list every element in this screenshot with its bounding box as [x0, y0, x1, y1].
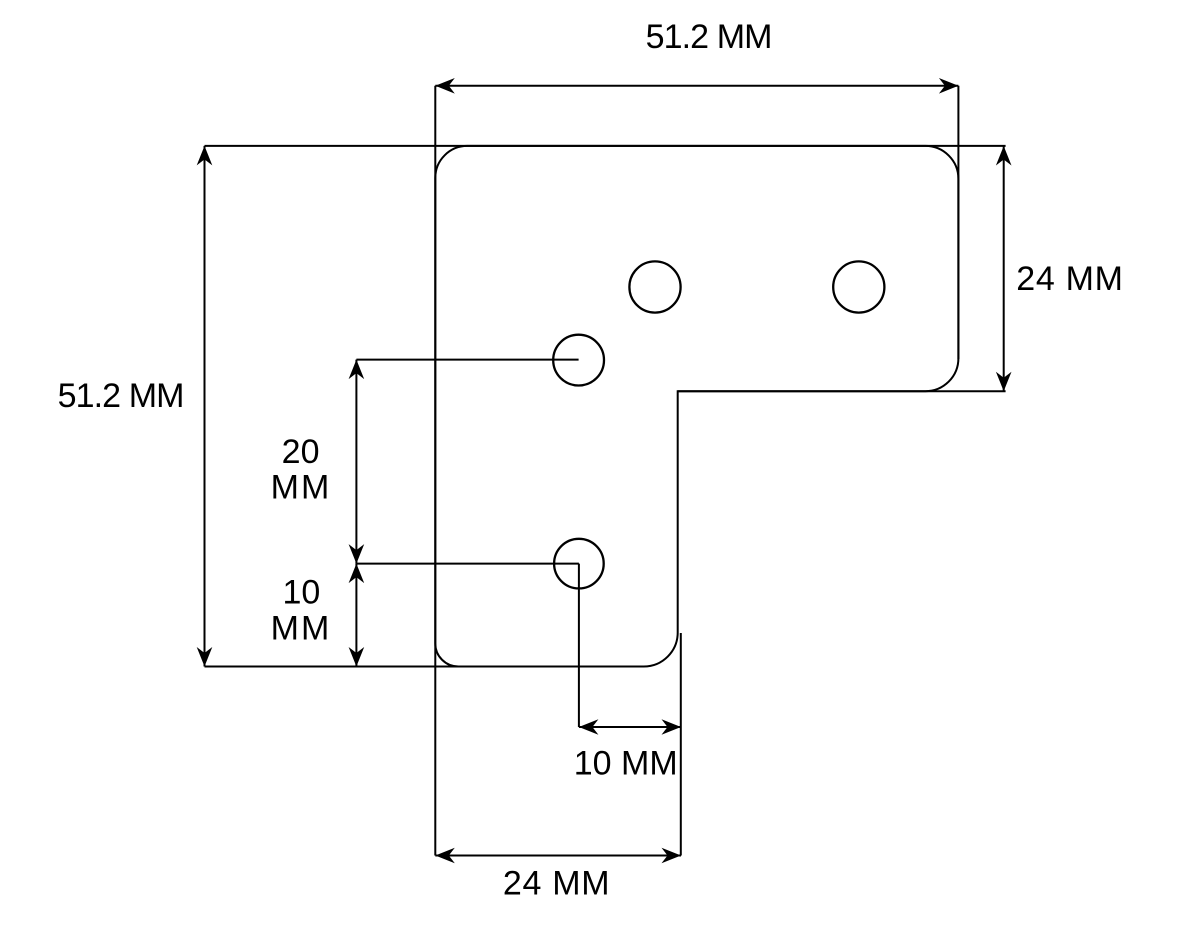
- svg-text:24 MM: 24 MM: [503, 865, 610, 903]
- svg-text:24 MM: 24 MM: [1016, 260, 1123, 298]
- right edge line (plate right edge + extension to top dim): [957, 86, 959, 359]
- svg-text:20: 20: [282, 433, 320, 471]
- dimension 20 MM: [271, 360, 365, 564]
- svg-text:MM: MM: [271, 609, 332, 647]
- dimension 24 MM right: [996, 146, 1124, 391]
- dimension 10 MM bottom: [574, 719, 681, 782]
- hole H3 middle: [553, 335, 604, 386]
- dimension 51.2 MM left: [58, 146, 213, 667]
- svg-text:MM: MM: [271, 468, 332, 506]
- extension line right of leg: [680, 633, 682, 856]
- plate outline: [435, 146, 958, 667]
- svg-text:10: 10: [282, 573, 320, 611]
- leg bottom edge line (plate leg bottom + extension to left dim): [205, 666, 645, 668]
- svg-text:51.2 MM: 51.2 MM: [646, 18, 772, 56]
- svg-text:10 MM: 10 MM: [574, 744, 678, 782]
- svg-text:51.2 MM: 51.2 MM: [58, 377, 184, 415]
- dimension 51.2 MM top: [435, 18, 958, 94]
- hole H2 top-right: [833, 261, 884, 312]
- leader line hole H4 vertical down: [578, 564, 580, 727]
- dimension 10 MM left: [271, 564, 365, 667]
- leader line hole H4: [356, 563, 579, 565]
- arm bottom edge line (plate arm bottom + extension to right dim): [678, 390, 1006, 392]
- left edge line (plate left edge + extensions to top and bottom dims): [434, 86, 436, 856]
- hole H4 lower: [554, 539, 604, 589]
- leader line hole H3: [356, 359, 578, 361]
- dimension 24 MM bottom: [435, 848, 681, 903]
- top edge line (plate top edge + extensions both sides): [205, 145, 1006, 147]
- hole H1 top-left: [629, 261, 680, 312]
